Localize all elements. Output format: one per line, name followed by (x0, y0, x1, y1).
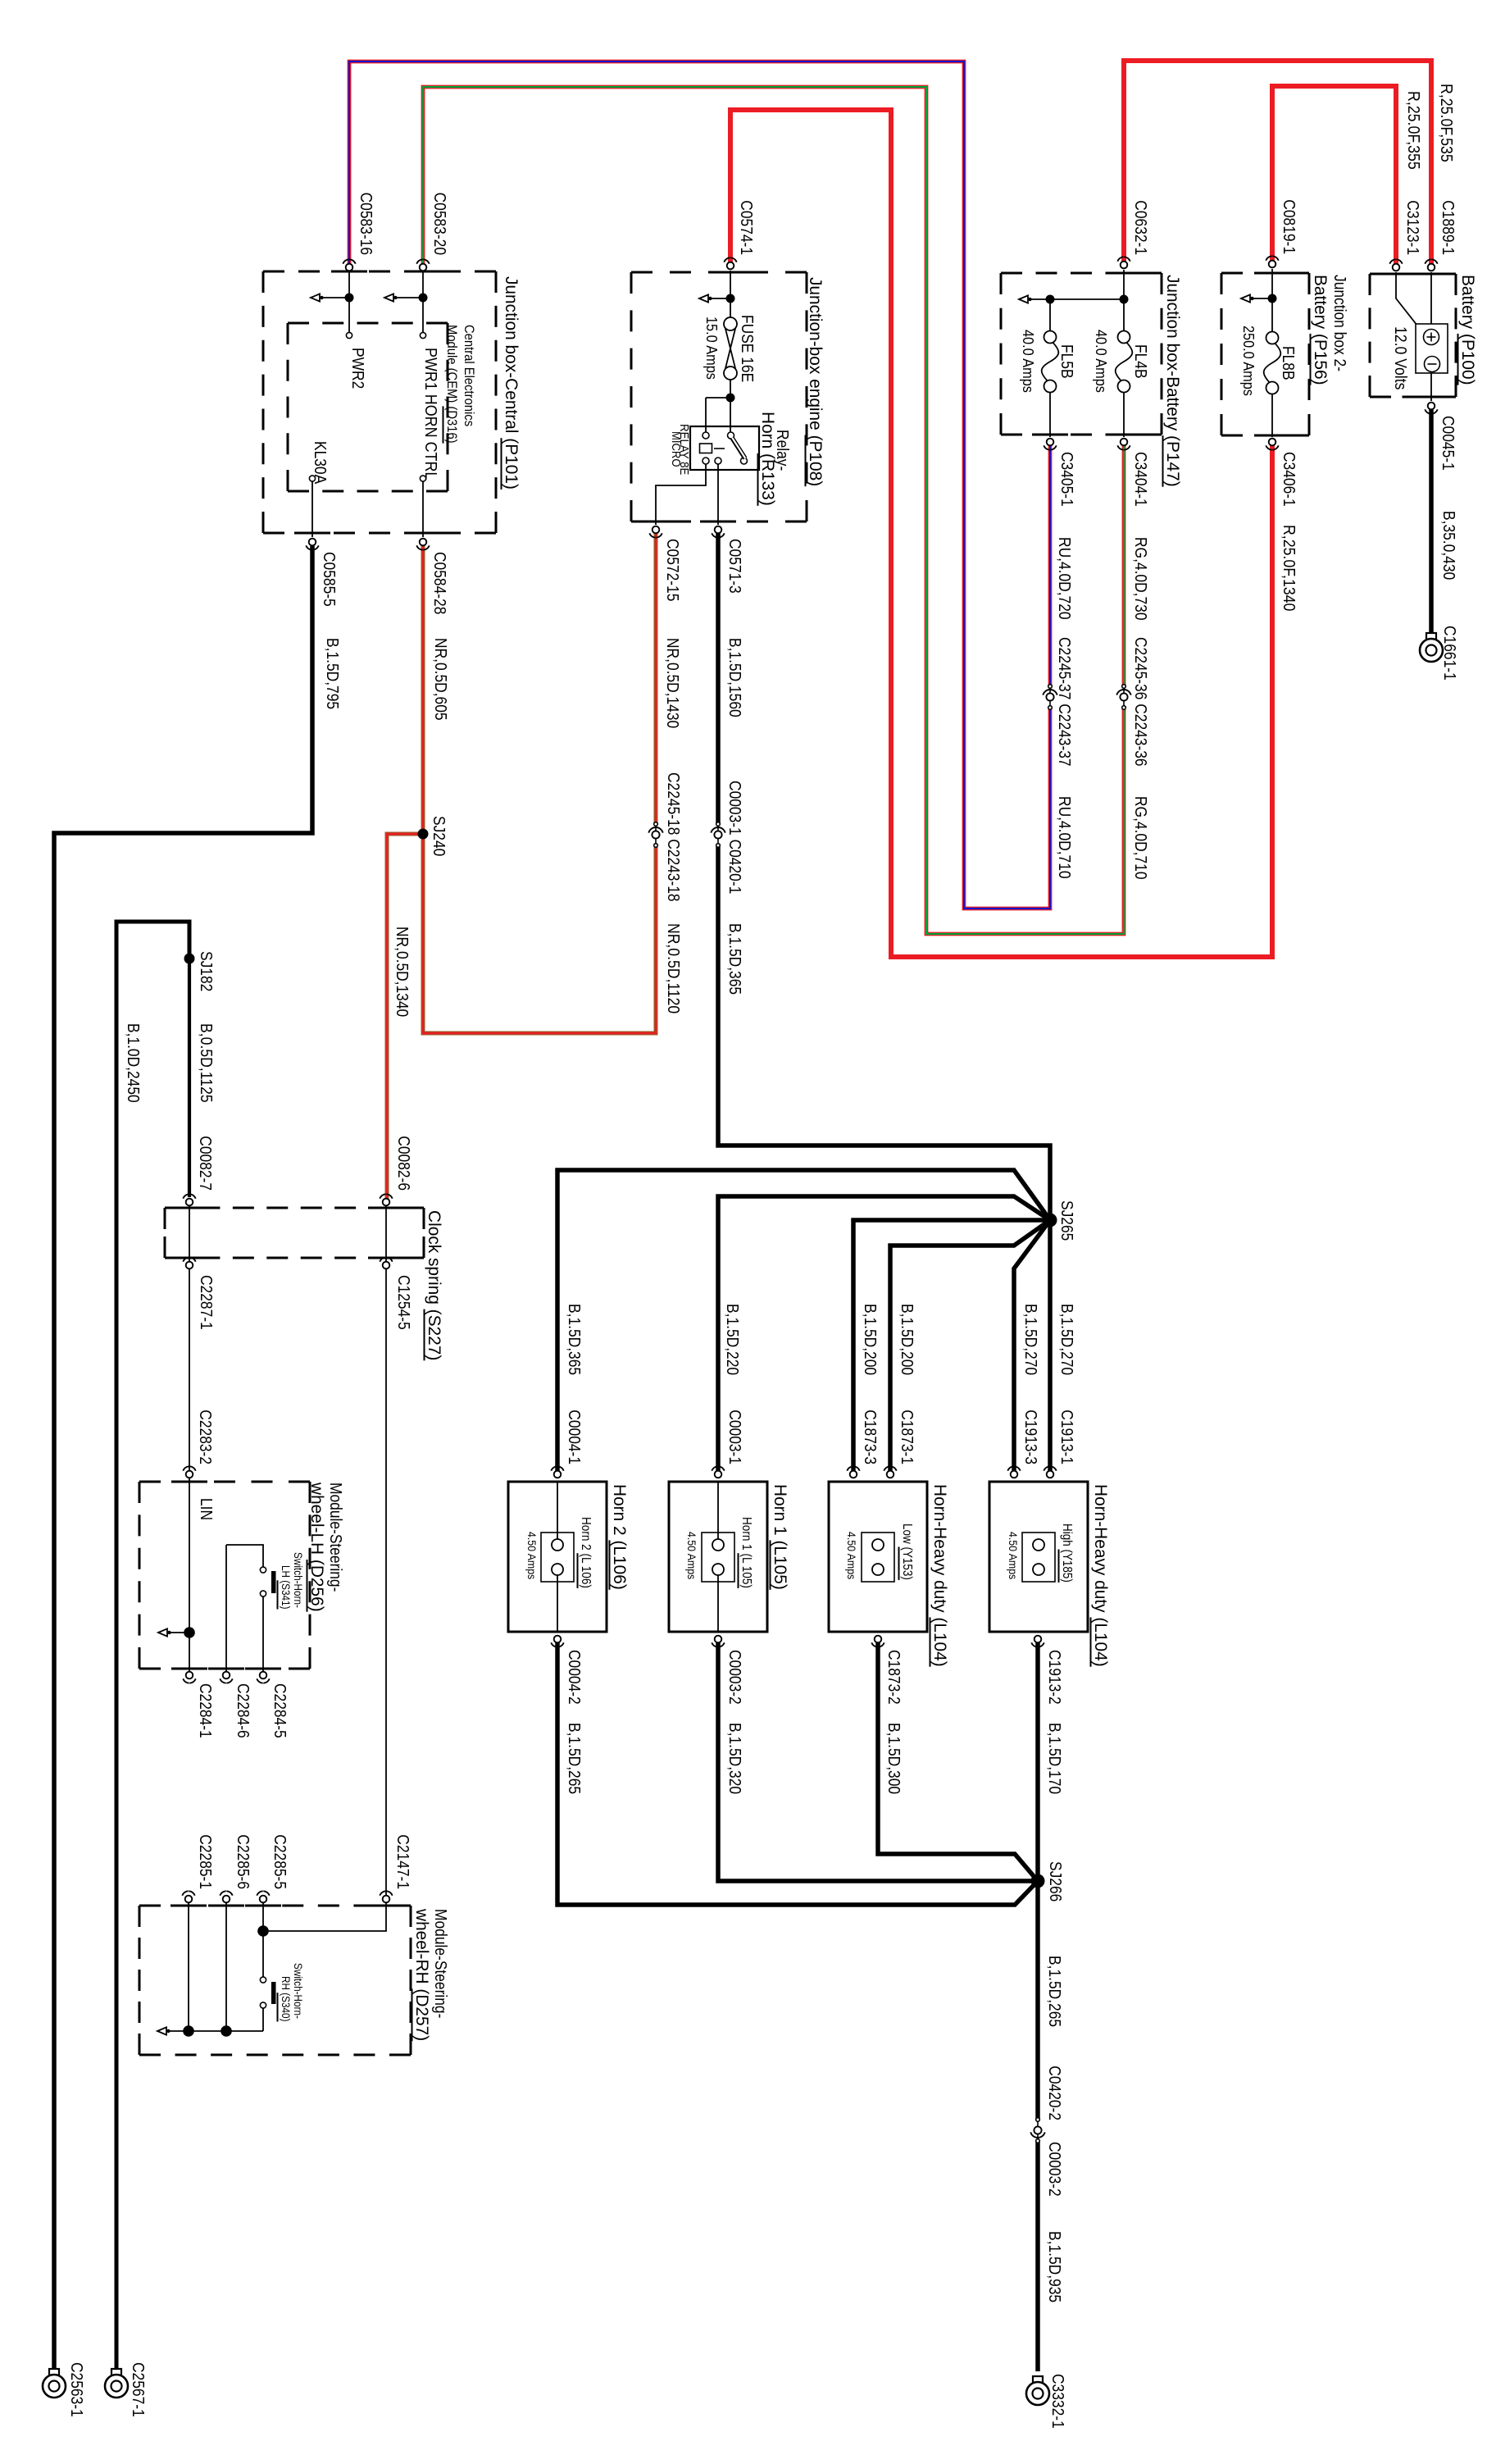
CEM PWR2 pin (346, 332, 352, 338)
wire B,1.0D,2450 SJ182 to ground (116, 922, 189, 2371)
svg-text:B,1.5D,200: B,1.5D,200 (898, 1304, 916, 1375)
splice SJ266 (1031, 1874, 1045, 1888)
svg-text:NR,0.5D,1120: NR,0.5D,1120 (664, 923, 682, 1013)
svg-text:RH (S340): RH (S340) (280, 1976, 292, 2022)
inline connector C0003-1 C0420-1 (716, 822, 721, 827)
svg-text:B,1.5D,170: B,1.5D,170 (1045, 1723, 1063, 1794)
svg-text:High (Y185): High (Y185) (1060, 1523, 1074, 1583)
wire NR,0.5D,1120 SJ240 to inline connector (423, 834, 656, 1033)
connector C2284-1 (186, 1672, 193, 1679)
wire P101 PWR1 branch (422, 272, 424, 332)
svg-text:SJ240: SJ240 (430, 816, 448, 856)
connector C2284-6 (223, 1672, 230, 1679)
wire RG,4.0D,710 lower (423, 87, 1124, 934)
svg-text:B,1.5D,795: B,1.5D,795 (323, 638, 341, 709)
svg-text:C2284-1: C2284-1 (196, 1683, 214, 1738)
svg-text:Module-Steering-: Module-Steering- (431, 1909, 449, 2018)
connector C0082-7 (186, 1199, 193, 1206)
splice SJ240 (418, 829, 429, 840)
svg-text:C2245-37 C2243-37: C2245-37 C2243-37 (1055, 637, 1073, 767)
svg-text:C0583-16: C0583-16 (357, 193, 375, 255)
wire NR,0.5D,1340 SJ240 to clock spring (387, 834, 423, 1202)
connector C0572-15 (653, 526, 660, 534)
svg-text:B,1.5D,365: B,1.5D,365 (725, 923, 743, 995)
svg-text:Junction box 2-: Junction box 2- (1330, 275, 1348, 371)
svg-text:NR,0.5D,605: NR,0.5D,605 (431, 638, 449, 721)
ring terminal C1661-1 (1426, 633, 1436, 640)
svg-text:B,1.5D,935: B,1.5D,935 (1045, 2231, 1063, 2302)
wire P147 FL5B to C3405-1 (1049, 393, 1051, 437)
svg-text:C0003-2: C0003-2 (1045, 2142, 1063, 2197)
fuse 16E (724, 317, 737, 330)
inline connector C0420-2 C0003-2 (1036, 2118, 1040, 2122)
inline connector C2245-18 C2243-18 (654, 822, 658, 827)
svg-text:4.50 Amps: 4.50 Amps (685, 1532, 698, 1579)
switch S341 (260, 1567, 266, 1573)
svg-text:C1913-1: C1913-1 (1057, 1410, 1075, 1464)
connector C2283-2 (186, 1471, 193, 1478)
P101 PWR2 junction dot with arrow (345, 294, 354, 303)
svg-text:LIN: LIN (197, 1498, 215, 1520)
clock spring S227 dashed box (165, 1207, 424, 1209)
connector C1873-3 (850, 1471, 857, 1478)
wire B,1.5D,220 horn1 to SJ265 (718, 1196, 1050, 1474)
edge ticks (1413, 273, 1449, 276)
svg-text:R,25.0F,1340: R,25.0F,1340 (1280, 525, 1298, 611)
svg-text:R,25.0F,535: R,25.0F,535 (1437, 84, 1455, 162)
svg-text:LH (S341): LH (S341) (280, 1565, 292, 1610)
P101 PWR1 junction dot with arrow (419, 294, 428, 303)
svg-text:C0420-2: C0420-2 (1045, 2065, 1063, 2120)
svg-text:RG,4.0D,710: RG,4.0D,710 (1131, 796, 1149, 880)
svg-text:SJ265: SJ265 (1057, 1200, 1075, 1241)
wire B,1.5D,935 C0420-2 to ground (1035, 2141, 1040, 2371)
module D257 dashed box (139, 1905, 411, 1907)
svg-text:C0082-7: C0082-7 (196, 1136, 214, 1191)
svg-text:FL8B: FL8B (1279, 346, 1297, 380)
horn 1 L105 box (669, 1482, 767, 1632)
svg-text:C1913-3: C1913-3 (1021, 1410, 1039, 1464)
wire horn1 internal (717, 1481, 719, 1539)
svg-text:C3406-1: C3406-1 (1280, 452, 1298, 507)
CEM PWR1 pin (420, 332, 425, 338)
horn heavy duty low box (829, 1482, 927, 1632)
svg-text:NR,0.5D,1430: NR,0.5D,1430 (663, 638, 681, 728)
svg-text:C2245-36 C2243-36: C2245-36 C2243-36 (1131, 637, 1149, 767)
svg-text:C2287-1: C2287-1 (197, 1275, 215, 1330)
wire B,1.5D,265 SJ266 to C0420-2 (1035, 1881, 1040, 2120)
svg-text:PWR1 HORN CTRL: PWR1 HORN CTRL (421, 348, 439, 480)
svg-text:B,1.5D,270: B,1.5D,270 (1021, 1304, 1039, 1375)
svg-text:C2563-1: C2563-1 (67, 2362, 85, 2417)
svg-text:C0585-5: C0585-5 (320, 552, 338, 607)
svg-text:Junction box-Central (P101): Junction box-Central (P101) (502, 276, 521, 490)
wire B,1.5D,365 connector to SJ265 (718, 845, 1050, 1220)
svg-text:FUSE 16E: FUSE 16E (738, 315, 756, 382)
connector C0045-1 (1428, 403, 1435, 410)
svg-text:40.0 Amps: 40.0 Amps (1093, 330, 1110, 393)
wire B,1.5D,300 low horn to SJ266 (878, 1639, 1038, 1881)
svg-text:C1873-2: C1873-2 (884, 1650, 903, 1705)
wire D257 bottom bus (189, 2030, 263, 2032)
wire R,25.0F,535 battery to P147 (1124, 61, 1431, 267)
svg-text:C3332-1: C3332-1 (1048, 2374, 1066, 2429)
connector C1913-2 (1034, 1636, 1042, 1643)
svg-text:C1873-3: C1873-3 (861, 1410, 879, 1464)
wire P147 FL4B to C3404-1 (1123, 393, 1125, 437)
svg-text:C1254-5: C1254-5 (394, 1275, 412, 1330)
connector C3406-1 (1269, 439, 1276, 446)
splice SJ265 (1044, 1214, 1057, 1227)
wire D256 LIN path (189, 1478, 190, 1671)
wire B,1.5D,795 CEM to ground (54, 543, 312, 2371)
svg-text:C3405-1: C3405-1 (1057, 452, 1075, 507)
connector C2287-1 (186, 1262, 193, 1269)
svg-text:40.0 Amps: 40.0 Amps (1020, 330, 1037, 393)
svg-text:wheel-RH (D257): wheel-RH (D257) (412, 1908, 432, 2041)
svg-text:B,1.0D,2450: B,1.0D,2450 (124, 1023, 142, 1103)
svg-text:FL5B: FL5B (1057, 344, 1075, 379)
svg-text:Junction box-Battery (P147): Junction box-Battery (P147) (1163, 275, 1183, 487)
svg-text:SJ182: SJ182 (197, 951, 215, 991)
wire R,25.0F,355 battery to P156 (1272, 86, 1396, 267)
wire P101 HORN CTRL to C0584-28 (422, 481, 424, 537)
svg-text:Module-Steering-: Module-Steering- (326, 1482, 344, 1592)
svg-text:C0003-2: C0003-2 (725, 1650, 743, 1705)
svg-text:B,1.5D,265: B,1.5D,265 (1045, 1956, 1063, 2027)
svg-text:C0819-1: C0819-1 (1280, 199, 1298, 254)
svg-text:C0082-6: C0082-6 (394, 1136, 412, 1191)
switch S340 (260, 1977, 266, 1983)
svg-text:C1889-1: C1889-1 (1439, 200, 1457, 255)
svg-text:C0004-2: C0004-2 (565, 1650, 583, 1705)
P156 junction dot with arrow (1268, 294, 1277, 303)
connector C3404-1 (1121, 439, 1128, 446)
svg-text:Battery (P100): Battery (P100) (1458, 275, 1478, 385)
svg-text:Clock spring (S227): Clock spring (S227) (425, 1210, 444, 1360)
svg-text:Horn 1 (L105): Horn 1 (L105) (771, 1484, 790, 1590)
connector C0571-3 (715, 526, 722, 534)
svg-text:C1913-2: C1913-2 (1045, 1650, 1063, 1705)
battery P100 dashed box (1370, 273, 1456, 276)
svg-text:Horn 2 (L 106): Horn 2 (L 106) (579, 1517, 593, 1588)
wire P156 FL8B to C3406-1 (1271, 394, 1273, 437)
svg-text:4.50 Amps: 4.50 Amps (1007, 1532, 1020, 1579)
connector C0819-1 (1269, 261, 1276, 268)
ring terminal C2563-1 (49, 2369, 59, 2375)
wire D256 switch branch (226, 1545, 263, 1567)
module D256 dashed box (139, 1481, 310, 1483)
svg-text:B,1.5D,200: B,1.5D,200 (861, 1304, 879, 1375)
svg-text:C2285-5: C2285-5 (271, 1834, 289, 1889)
svg-text:RG,4.0D,730: RG,4.0D,730 (1131, 537, 1149, 621)
svg-text:C2245-18 C2243-18: C2245-18 C2243-18 (664, 772, 682, 902)
fuse FL8B (1266, 332, 1279, 344)
wire B,1.5D,265 horn2 to SJ266 (557, 1639, 1038, 1905)
svg-text:C2285-1: C2285-1 (196, 1834, 214, 1889)
wire battery to C0045-1 (1430, 372, 1432, 401)
svg-text:wheel-LH (D256): wheel-LH (D256) (307, 1482, 327, 1612)
connector C0574-1 (727, 262, 734, 270)
svg-text:C2567-1: C2567-1 (129, 2362, 147, 2417)
svg-text:15.0 Amps: 15.0 Amps (703, 317, 721, 380)
svg-text:C2147-1: C2147-1 (393, 1834, 412, 1889)
splice SJ182 (184, 954, 195, 964)
svg-text:Horn 1 (L 105): Horn 1 (L 105) (739, 1517, 753, 1588)
svg-text:C3404-1: C3404-1 (1131, 452, 1149, 507)
wire NR,0.5D,605 CEM to SJ240 (421, 542, 425, 834)
svg-text:Module (CEM) (D316): Module (CEM) (D316) (444, 325, 460, 444)
connector C0583-20 (420, 264, 427, 271)
wire clock spring left (189, 1206, 190, 1261)
wire D257 switch path (262, 1903, 264, 1977)
P108 junction dot with arrow (726, 294, 735, 303)
wire clock spring right (385, 1206, 387, 1261)
svg-text:FL4B: FL4B (1131, 344, 1149, 379)
svg-text:C1661-1: C1661-1 (1440, 626, 1458, 681)
svg-text:C0003-1 C0420-1: C0003-1 C0420-1 (725, 781, 743, 894)
junction box P147 dashed box (1001, 272, 1162, 275)
svg-text:B,1.5D,320: B,1.5D,320 (725, 1723, 743, 1794)
svg-text:Junction-box engine (P108): Junction-box engine (P108) (806, 277, 825, 486)
svg-text:B,35.0,430: B,35.0,430 (1439, 511, 1457, 580)
wire B,1.5D,200 low horn pin3 to SJ265 (853, 1220, 1050, 1474)
relay contact (728, 432, 734, 439)
connector C1873-2 (875, 1636, 882, 1643)
D257 junction dot (257, 1925, 269, 1937)
relay coil (703, 432, 709, 439)
junction box P108 dashed box (631, 271, 807, 274)
svg-text:NR,0.5D,1340: NR,0.5D,1340 (393, 927, 411, 1017)
svg-text:C0571-3: C0571-3 (725, 539, 743, 594)
svg-text:C2283-2: C2283-2 (196, 1410, 214, 1464)
CEM KL30A pin (309, 476, 315, 481)
battery symbol (1416, 324, 1448, 373)
svg-text:Low (Y153): Low (Y153) (900, 1523, 914, 1580)
svg-text:PWR2: PWR2 (348, 348, 366, 389)
wire P156 internal (1271, 269, 1273, 331)
svg-text:C0632-1: C0632-1 (1131, 200, 1149, 255)
connector C0584-28 (420, 539, 427, 546)
P147 junction dots with arrow (1120, 295, 1129, 304)
inline connector C2245-36 C2243-36 (1122, 685, 1126, 689)
connector C3123-1 (1393, 264, 1400, 271)
wire B,1.5D,170 high horn to SJ266 (1035, 1639, 1040, 1881)
svg-text:250.0 Amps: 250.0 Amps (1240, 326, 1257, 396)
ring terminal C3332-1 (1033, 2376, 1043, 2383)
connector C0632-1 (1121, 262, 1128, 269)
junction box P101 dashed box (263, 271, 496, 273)
wire RU,4.0D,710 lower (349, 61, 1050, 909)
ring terminal C2567-1 (111, 2369, 121, 2375)
svg-text:Horn-Heavy duty (L104): Horn-Heavy duty (L104) (930, 1484, 950, 1667)
wire P108 fuse chain (730, 271, 731, 318)
svg-text:B,1.5D,1560: B,1.5D,1560 (725, 638, 743, 717)
connector C0003-1 horn1 (715, 1471, 722, 1478)
svg-text:B,1.5D,220: B,1.5D,220 (723, 1304, 741, 1375)
connector C0583-16 (346, 264, 353, 271)
connector C0082-6 (383, 1199, 390, 1206)
svg-text:B,1.5D,265: B,1.5D,265 (565, 1723, 583, 1794)
D257 bus dots with arrow (183, 2025, 194, 2037)
relay R133 box (690, 426, 759, 470)
connector C1913-3 (1011, 1471, 1018, 1478)
svg-text:B,1.5D,365: B,1.5D,365 (565, 1304, 583, 1375)
wire P147 internal bus (1123, 270, 1125, 330)
svg-text:12.0 Volts: 12.0 Volts (1391, 326, 1409, 389)
svg-text:4.50 Amps: 4.50 Amps (845, 1532, 858, 1579)
wire P108 coil branch (706, 397, 730, 399)
CEM HORN CTRL pin (420, 476, 425, 481)
svg-text:Horn (R133): Horn (R133) (758, 412, 778, 506)
inline connector C2245-37 C2243-37 (1048, 685, 1053, 689)
svg-text:4.50 Amps: 4.50 Amps (525, 1532, 539, 1579)
svg-text:C2284-5: C2284-5 (271, 1683, 289, 1738)
wire R,25.0F,1340 P156 to relay box (730, 110, 1272, 957)
wire RU,4.0D,720 upper (1048, 442, 1053, 686)
connector C2285-6 (223, 1896, 230, 1903)
svg-text:C0572-15: C0572-15 (663, 539, 681, 601)
connector C1889-1 (1428, 264, 1435, 271)
svg-text:B,1.5D,300: B,1.5D,300 (884, 1723, 903, 1794)
CEM D316 dashed box (288, 322, 448, 325)
svg-text:MICRO: MICRO (669, 431, 683, 467)
connector C2284-5 (260, 1672, 267, 1679)
svg-text:C0584-28: C0584-28 (430, 552, 448, 614)
D256 junction dot with arrow (184, 1627, 195, 1638)
connector C0003-2 horn1 (715, 1636, 722, 1643)
wire B,1.5D,365 horn2 to SJ265 (557, 1170, 1050, 1474)
connector C3405-1 (1047, 439, 1054, 446)
svg-text:KL30A: KL30A (311, 441, 329, 485)
svg-text:C0003-1: C0003-1 (725, 1410, 743, 1464)
svg-text:C0045-1: C0045-1 (1439, 416, 1457, 471)
fuse FL5B (1044, 331, 1057, 344)
wire C2287-1 to C2283-2 (189, 1269, 190, 1470)
fuse FL4B (1118, 331, 1130, 344)
wire B,1.5D,1560 relay to connector (716, 530, 721, 824)
wire P101 PWR2 branch (348, 272, 350, 332)
svg-text:C2285-6: C2285-6 (234, 1834, 252, 1889)
svg-text:B,1.5D,270: B,1.5D,270 (1057, 1304, 1075, 1375)
wire P101 KL30A to C0585-5 (311, 481, 313, 537)
svg-text:Battery (P156): Battery (P156) (1311, 275, 1330, 385)
svg-text:C3123-1: C3123-1 (1403, 200, 1421, 255)
svg-text:Horn-Heavy duty (L104): Horn-Heavy duty (L104) (1091, 1484, 1111, 1667)
svg-text:C0004-1: C0004-1 (565, 1410, 583, 1464)
svg-text:Switch-Horn-: Switch-Horn- (292, 1963, 304, 2019)
wire NR,0.5D,1430 inline connector to relay (654, 530, 658, 822)
connector C2285-1 (185, 1896, 193, 1903)
wire D257 C2147 jumper (263, 1903, 386, 1931)
connector C0004-1 (554, 1471, 562, 1478)
wire B,1.5D,270 high horn pin1 to SJ265 (1048, 1220, 1053, 1474)
svg-text:C0574-1: C0574-1 (737, 200, 755, 255)
connector C1913-1 (1047, 1471, 1054, 1478)
wire C1254-5 to C2147-1 (385, 1269, 387, 1895)
wire battery positive lead (1430, 272, 1432, 330)
wire horn2 internal (557, 1481, 558, 1539)
wire B,0.5D,1125 SJ182 to clock spring (188, 959, 191, 1197)
horn heavy duty high box (989, 1482, 1088, 1632)
P108 fuse lower junction dot (726, 394, 735, 403)
svg-text:Switch-Horn-: Switch-Horn- (292, 1552, 304, 1608)
connector C2147-1 (383, 1896, 390, 1903)
wire B,1.5D,200 low horn pin1 to SJ265 (890, 1220, 1050, 1474)
svg-text:C2284-6: C2284-6 (234, 1683, 252, 1738)
connector C2285-5 (260, 1896, 267, 1903)
svg-text:Horn 2 (L106): Horn 2 (L106) (610, 1484, 630, 1590)
junction box P156 dashed box (1221, 272, 1309, 275)
svg-text:RU,4.0D,710: RU,4.0D,710 (1055, 796, 1073, 879)
wire B,35.0,430 battery to ground (1429, 406, 1434, 640)
svg-text:C1873-1: C1873-1 (898, 1410, 916, 1464)
connector C0004-2 (554, 1636, 562, 1643)
svg-text:Central Electronics: Central Electronics (462, 325, 477, 426)
svg-text:RU,4.0D,720: RU,4.0D,720 (1055, 537, 1073, 620)
svg-text:SJ266: SJ266 (1046, 1861, 1064, 1902)
connector C1873-1 (887, 1471, 894, 1478)
connector C1254-5 (383, 1262, 390, 1269)
wire P108 contact to C0571-3 (717, 464, 719, 525)
svg-text:C0583-20: C0583-20 (430, 193, 448, 255)
svg-text:R,25.0F,355: R,25.0F,355 (1404, 91, 1422, 170)
wire B,1.5D,270 high horn pin3 to SJ265 (1014, 1220, 1050, 1474)
horn 2 L106 box (508, 1482, 607, 1632)
wire P108 coil to C0572-15 (656, 464, 706, 525)
connector C0585-5 (309, 539, 316, 546)
wire B,1.5D,320 horn1 to SJ266 (718, 1639, 1038, 1881)
wire battery negative diagonal lead (1396, 272, 1417, 326)
svg-text:B,0.5D,1125: B,0.5D,1125 (197, 1023, 215, 1103)
wire RG,4.0D,730 upper (1122, 442, 1126, 686)
